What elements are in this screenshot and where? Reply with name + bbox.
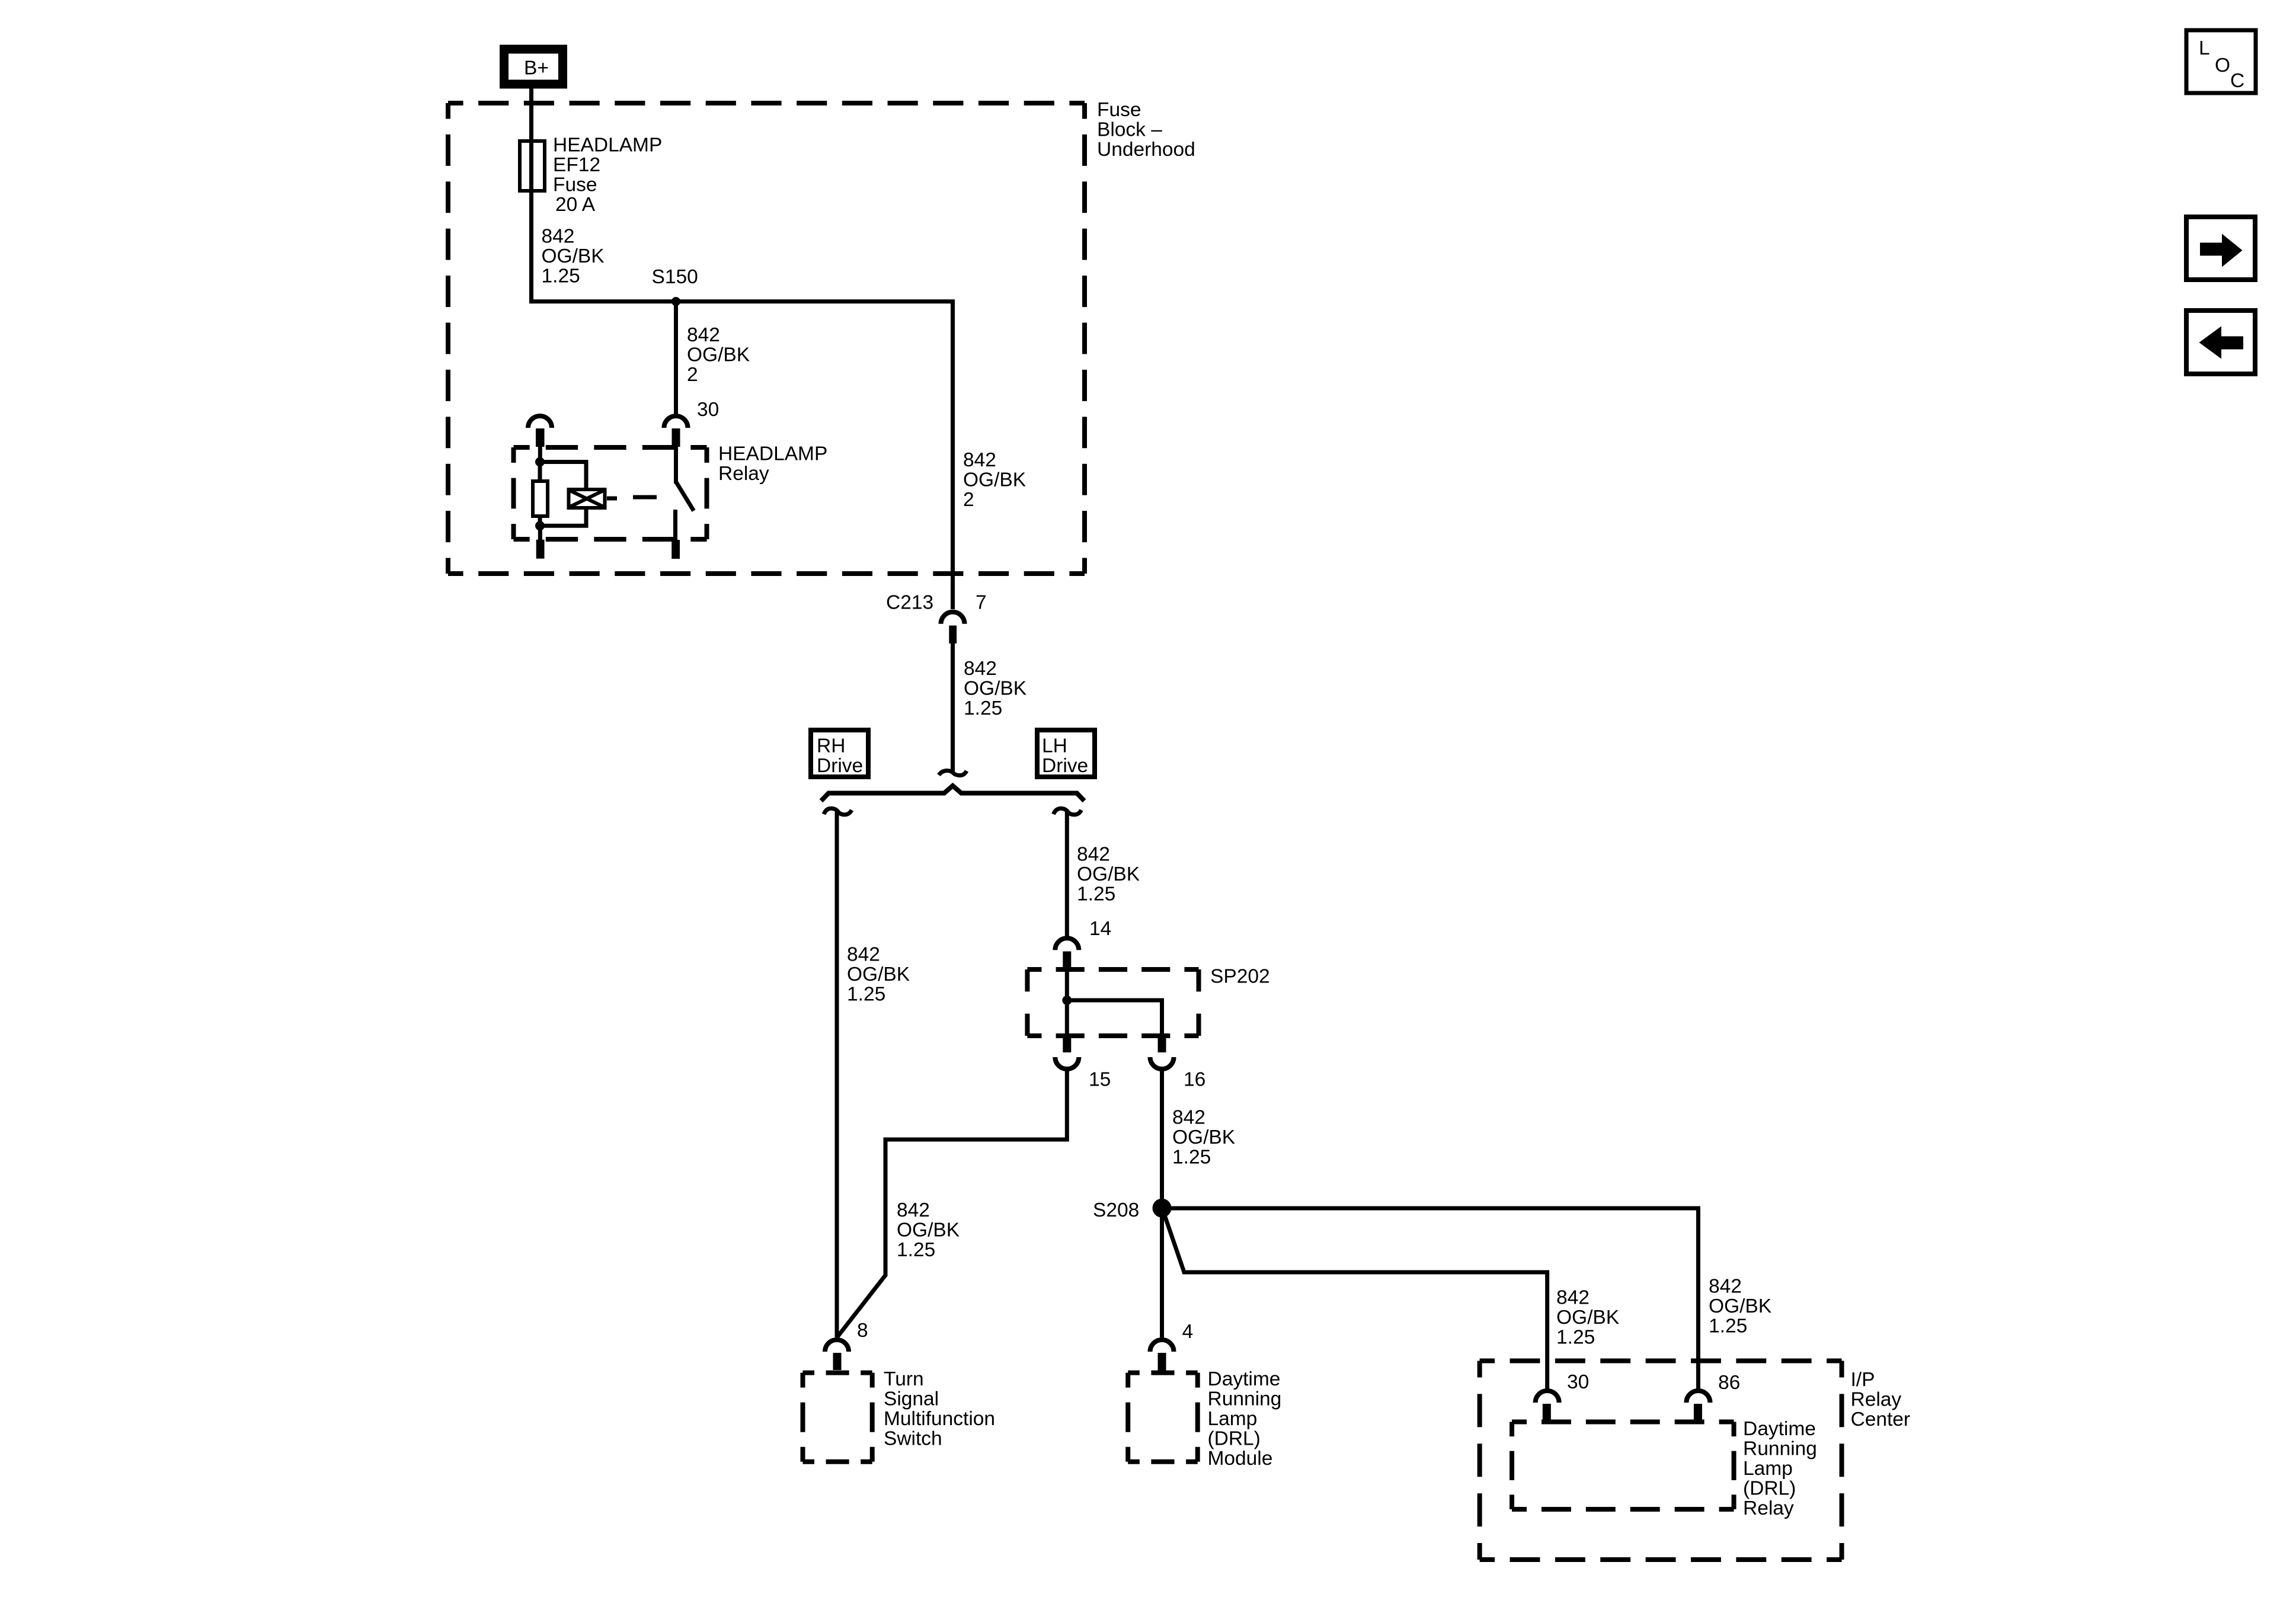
svg-text:O: O [2215,55,2230,76]
svg-text:8: 8 [857,1320,868,1342]
label 842 OG/BK 2 (relay feed) [687,324,750,386]
wire coil loop bottom [540,508,586,526]
svg-text:Lamp: Lamp [1208,1408,1258,1430]
svg-text:842: 842 [847,944,880,966]
svg-text:30: 30 [1567,1371,1589,1393]
wire coil bottom pin [536,526,545,558]
svg-text:SP202: SP202 [1210,966,1270,988]
svg-text:842: 842 [964,658,997,680]
svg-text:Drive: Drive [1042,755,1088,777]
svg-text:RH: RH [817,735,845,757]
label 842 OG/BK 1.25 (fuse output) [542,226,605,287]
svg-text:1.25: 1.25 [897,1239,935,1261]
svg-text:842: 842 [1556,1287,1590,1309]
wire S208 to pin 30 [1163,1212,1547,1389]
option hook LH [1054,808,1082,815]
svg-text:Running: Running [1208,1388,1282,1410]
connector C213 pin 7 [886,592,987,644]
wire pin 16 to S208 [1160,1069,1164,1208]
svg-text:4: 4 [1182,1321,1194,1343]
svg-text:Module: Module [1208,1448,1273,1470]
svg-text:842: 842 [1172,1107,1205,1129]
svg-text:Fuse: Fuse [1097,99,1141,121]
fuse EF12 [520,139,545,196]
svg-text:HEADLAMP: HEADLAMP [553,135,662,156]
wire C213 down to break [951,644,955,772]
svg-text:15: 15 [1089,1069,1111,1091]
svg-text:842: 842 [897,1199,930,1221]
svg-text:Relay: Relay [1743,1497,1794,1519]
splice SP202 dashed box [1027,969,1198,1036]
wire B+ to fuse [529,89,533,143]
node B+ battery feed [504,49,563,84]
svg-text:Fuse: Fuse [553,174,597,196]
splice SP202 pin 14 [1055,918,1111,971]
svg-text:86: 86 [1718,1372,1740,1394]
svg-text:842: 842 [1077,844,1110,866]
label Turn Signal Multifunction Switch [884,1368,995,1450]
svg-text:Relay: Relay [718,463,769,485]
svg-text:1.25: 1.25 [1172,1147,1211,1169]
I/P relay center dashed box [1480,1361,1842,1560]
wire break symbol [939,771,967,776]
daytime running lamp module box [1128,1373,1198,1462]
svg-text:842: 842 [963,449,996,471]
svg-text:S208: S208 [1093,1199,1139,1221]
svg-text:Multifunction: Multifunction [884,1408,995,1430]
svg-text:HEADLAMP: HEADLAMP [718,443,827,465]
headlamp relay dashed box [514,447,707,539]
relay switch [671,447,693,559]
svg-text:2: 2 [687,364,698,386]
splice SP202 pin 16 [1150,1033,1206,1091]
relay resistor [533,462,548,526]
RH Drive box [811,730,868,777]
svg-text:OG/BK: OG/BK [964,678,1027,700]
LOC legend icon [2186,30,2256,93]
wire RH drive drop to pin 8 [835,812,839,1337]
relay mechanical link dash [633,495,657,500]
svg-text:1.25: 1.25 [1709,1315,1747,1337]
svg-text:Daytime: Daytime [1743,1418,1816,1440]
pin 4 connector [1150,1321,1194,1371]
svg-text:Underhood: Underhood [1097,139,1195,161]
label I/P Relay Center [1851,1369,1911,1430]
daytime running lamp relay box [1512,1422,1734,1510]
svg-text:OG/BK: OG/BK [847,964,910,985]
svg-text:L: L [2199,37,2210,59]
pin 30 DRL relay [1536,1371,1590,1421]
svg-text:(DRL): (DRL) [1208,1428,1261,1450]
svg-text:OG/BK: OG/BK [1709,1295,1771,1317]
label 842 OG/BK 2 (right drop) [963,449,1026,511]
svg-text:Daytime: Daytime [1208,1368,1281,1390]
pin 86 DRL relay [1686,1372,1740,1422]
label 842 OG/BK 1.25 (LH drop) [1077,844,1140,905]
option brace [821,786,1085,801]
svg-text:1.25: 1.25 [1077,884,1115,905]
label Daytime Running Lamp (DRL) Module [1208,1368,1282,1470]
wire pin 15 to pin 8 [837,1069,1067,1337]
pin 30 headlamp relay [664,399,720,447]
svg-text:OG/BK: OG/BK [963,469,1026,491]
label HEADLAMP EF12 Fuse 20 A [553,135,662,216]
wire S208 to pin 86 [1168,1208,1698,1389]
pin 8 connector [825,1320,868,1370]
svg-text:C213: C213 [886,592,933,614]
label 842 OG/BK 1.25 (RH drop) [847,944,910,1006]
svg-text:EF12: EF12 [553,154,600,176]
svg-text:Block –: Block – [1097,119,1162,141]
label 842 OG/BK 1.25 (pin 30 feed) [1556,1287,1619,1349]
svg-text:Center: Center [1851,1409,1911,1430]
wire S208 to pin 4 [1160,1208,1164,1337]
svg-text:7: 7 [976,592,987,614]
svg-text:LH: LH [1042,735,1067,757]
wire coil loop [540,462,586,490]
svg-text:Running: Running [1743,1438,1817,1460]
relay coil pin terminal [528,416,552,457]
svg-text:842: 842 [687,324,720,346]
svg-text:2: 2 [963,489,974,511]
relay coil node B (bottom junction) [535,521,545,530]
relay coil actuator stub [607,497,617,501]
svg-text:Signal: Signal [884,1388,939,1410]
svg-text:842: 842 [542,226,575,248]
label HEADLAMP Relay [718,443,827,485]
svg-text:20 A: 20 A [555,194,596,216]
option hook RH [824,808,852,815]
svg-text:Relay: Relay [1851,1389,1902,1411]
svg-text:(DRL): (DRL) [1743,1478,1796,1500]
forward arrow icon [2186,217,2255,280]
svg-text:1.25: 1.25 [847,984,885,1006]
svg-text:1.25: 1.25 [542,265,580,287]
svg-text:Lamp: Lamp [1743,1458,1793,1480]
label Fuse Block Underhood [1097,99,1195,161]
svg-text:Drive: Drive [817,755,863,777]
splice SP202 internal wires [1067,969,1162,1035]
svg-text:Switch: Switch [884,1428,942,1450]
label Daytime Running Lamp (DRL) Relay [1743,1418,1817,1519]
LH Drive box [1037,730,1095,777]
svg-text:OG/BK: OG/BK [1172,1126,1235,1148]
svg-text:I/P: I/P [1851,1369,1875,1391]
label 842 OG/BK 1.25 (C213 drop) [964,658,1027,719]
wire fuse to S150 to right drop [532,193,953,609]
label 842 OG/BK 1.25 (pin 15 run) [897,1199,960,1261]
svg-text:OG/BK: OG/BK [1556,1307,1619,1329]
wire S150 to relay pin 30 [674,302,678,415]
svg-text:OG/BK: OG/BK [542,245,605,267]
svg-text:14: 14 [1089,918,1111,940]
svg-text:16: 16 [1184,1069,1205,1091]
svg-text:C: C [2230,70,2244,92]
fuse block underhood dashed box [448,103,1085,574]
svg-text:OG/BK: OG/BK [1077,863,1140,885]
relay coil node A (top junction) [535,457,545,467]
svg-text:Turn: Turn [884,1368,924,1390]
node S150 [652,266,698,306]
label 842 OG/BK 1.25 (pin 16 run) [1172,1107,1235,1169]
back arrow icon [2186,311,2255,374]
svg-text:842: 842 [1709,1276,1742,1298]
svg-text:30: 30 [697,399,719,421]
svg-text:OG/BK: OG/BK [897,1219,960,1241]
turn signal multifunction switch box [803,1373,872,1462]
svg-text:B+: B+ [524,57,549,79]
relay coil (solenoid X box) [569,489,605,508]
wire LH drive drop to pin 14 [1065,812,1069,936]
svg-text:1.25: 1.25 [1556,1327,1595,1349]
splice SP202 node [1062,996,1072,1005]
svg-text:OG/BK: OG/BK [687,344,750,366]
node S208 [1093,1199,1172,1221]
label 842 OG/BK 1.25 (pin 86 feed) [1709,1276,1771,1337]
svg-text:1.25: 1.25 [964,697,1002,719]
svg-text:S150: S150 [652,266,698,288]
splice SP202 pin 15 [1055,1033,1111,1091]
